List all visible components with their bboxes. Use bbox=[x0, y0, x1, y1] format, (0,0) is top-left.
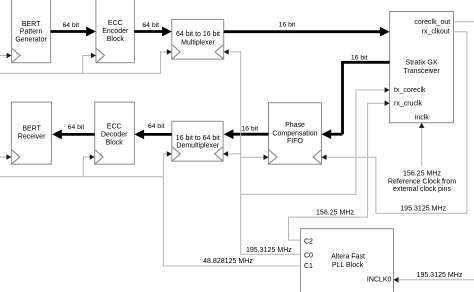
svg-text:195.3125 MHz: 195.3125 MHz bbox=[400, 205, 446, 212]
svg-text:195.3125 MHz: 195.3125 MHz bbox=[246, 247, 292, 254]
svg-text:BERT: BERT bbox=[22, 21, 41, 28]
block U6 ECC Decoder Block bbox=[95, 102, 135, 164]
wire net C0 195.3125 MHz: vertical from PLL C0 bbox=[229, 52, 301, 254]
svg-text:inclk: inclk bbox=[415, 115, 430, 122]
arrow into U8 right clock bbox=[322, 154, 327, 160]
arrow into tx_coreclk bbox=[385, 87, 390, 93]
svg-text:Block: Block bbox=[106, 140, 124, 147]
svg-text:external clock pins: external clock pins bbox=[393, 186, 451, 193]
svg-text:64 bit: 64 bit bbox=[68, 124, 85, 131]
clock chevron right on U3 bbox=[215, 45, 223, 59]
data arrow D: transceiver to FIFO, 16 bit elbow bbox=[322, 54, 390, 139]
arrow into U7 left clock bbox=[167, 151, 172, 157]
svg-text:Receiver: Receiver bbox=[18, 134, 46, 141]
wire stub to U1 clock bbox=[0, 55, 7, 57]
block U8 Phase Compensation FIFO bbox=[269, 103, 322, 165]
wire net C1: bottom rail bbox=[0, 176, 163, 178]
svg-text:156.25 MHz: 156.25 MHz bbox=[403, 171, 441, 178]
clock chevron left on U8 bbox=[269, 150, 277, 164]
svg-text:16 bit: 16 bit bbox=[279, 22, 296, 29]
svg-text:Altera Fast: Altera Fast bbox=[331, 254, 365, 261]
svg-text:Demultiplexer: Demultiplexer bbox=[176, 142, 219, 149]
wire net C2 156.25 MHz: from PLL C2 to rx_cruclk bbox=[289, 103, 386, 240]
svg-text:Stratix GX: Stratix GX bbox=[406, 60, 438, 67]
clock chevron left on U7 bbox=[172, 147, 180, 161]
wire coreclk_out to right edge bbox=[454, 21, 474, 23]
svg-text:Block: Block bbox=[107, 36, 125, 43]
block U9 Altera Fast PLL Block bbox=[301, 229, 394, 292]
clock chevron left on U3 bbox=[172, 45, 180, 59]
svg-text:rx_clkout: rx_clkout bbox=[422, 28, 450, 35]
svg-text:FIFO: FIFO bbox=[287, 138, 303, 145]
wire branch to tx_coreclk bbox=[241, 90, 386, 194]
block U2 ECC Encoder Block bbox=[96, 0, 134, 63]
svg-text:Compensation: Compensation bbox=[272, 131, 317, 138]
label inclk reference clock bbox=[388, 171, 456, 193]
svg-text:Generator: Generator bbox=[15, 36, 47, 43]
svg-text:64 bit: 64 bit bbox=[62, 22, 79, 29]
arrow into U5 clock bbox=[6, 154, 11, 160]
clock chevron right on U8 bbox=[313, 150, 321, 164]
clock chevron right on U7 bbox=[215, 147, 223, 161]
svg-text:64 bit to 16 bit: 64 bit to 16 bit bbox=[176, 31, 220, 38]
svg-text:16 bit: 16 bit bbox=[241, 125, 258, 132]
arrow into U3 right clock bbox=[224, 49, 229, 55]
arrow into U7 right clock bbox=[223, 151, 228, 157]
arrow into U1 clock bbox=[7, 53, 12, 59]
wire branch to U2 clock bbox=[83, 56, 92, 74]
arrow into INCLK0 bbox=[394, 277, 399, 283]
wire net rx_clkout to FIFO right clock bbox=[326, 32, 467, 214]
wire branch to U8 left clock bbox=[241, 156, 265, 158]
svg-text:rx_cruclk: rx_cruclk bbox=[394, 101, 423, 108]
clock chevron on U1 bbox=[12, 49, 20, 63]
svg-text:Transceiver: Transceiver bbox=[403, 68, 440, 75]
clock chevron on U2 bbox=[96, 49, 104, 63]
arrow into U2 clock bbox=[91, 53, 96, 59]
svg-text:195.3125 MHz: 195.3125 MHz bbox=[417, 272, 463, 279]
wire inclk reference bbox=[421, 127, 423, 166]
data arrow C: multiplexer to transceiver, 16 bit bbox=[224, 22, 390, 37]
wire net C1: main vertical from PLL C1 bbox=[163, 154, 300, 266]
svg-text:48.828125 MHz: 48.828125 MHz bbox=[203, 258, 253, 265]
svg-text:64 bit: 64 bit bbox=[148, 123, 165, 130]
svg-text:C1: C1 bbox=[304, 263, 313, 270]
wire INCLK0 input bbox=[398, 279, 474, 281]
clock chevron on U6 bbox=[95, 150, 103, 164]
svg-text:C0: C0 bbox=[304, 252, 313, 259]
svg-text:INCLK0: INCLK0 bbox=[367, 276, 392, 283]
block U1 BERT Pattern Generator bbox=[12, 0, 51, 63]
wire net C1 48.828125 MHz: top rail bbox=[0, 52, 168, 74]
svg-text:16 bit to 64 bit: 16 bit to 64 bit bbox=[176, 135, 220, 142]
svg-text:BERT: BERT bbox=[22, 126, 41, 133]
svg-text:Pattern: Pattern bbox=[20, 29, 43, 36]
block U3 64 bit to 16 bit Multiplexer bbox=[172, 19, 224, 59]
svg-text:coreclk_out: coreclk_out bbox=[414, 19, 450, 26]
svg-text:Decoder: Decoder bbox=[101, 132, 128, 139]
svg-text:ECC: ECC bbox=[108, 20, 123, 27]
svg-text:Reference Clock from: Reference Clock from bbox=[388, 178, 456, 185]
data arrow A: generator to encoder, 64 bit bbox=[51, 22, 96, 36]
wire branch to U7 right clock bbox=[228, 153, 240, 155]
data arrow G: decoder to receiver, 64 bit bbox=[52, 124, 95, 139]
wire stub to U5 clock bbox=[0, 156, 7, 158]
arrow into U3 left clock bbox=[167, 49, 172, 55]
wire branch to U6 clock bbox=[83, 157, 90, 177]
data arrow E: FIFO to demultiplexer, 16 bit bbox=[224, 125, 269, 139]
svg-text:16 bit: 16 bit bbox=[351, 54, 368, 61]
arrow into U8 left clock bbox=[264, 154, 269, 160]
arrow into U6 clock bbox=[90, 154, 95, 160]
data arrow F: demultiplexer to decoder, 64 bit bbox=[134, 123, 171, 139]
svg-text:Multiplexer: Multiplexer bbox=[181, 39, 216, 46]
data arrow B: encoder to multiplexer, 64 bit bbox=[134, 22, 172, 36]
arrow into rx_cruclk bbox=[385, 100, 390, 106]
svg-text:ECC: ECC bbox=[107, 123, 122, 130]
svg-text:Phase: Phase bbox=[285, 122, 305, 129]
block U7 16 bit to 64 bit Demultiplexer bbox=[172, 121, 223, 161]
svg-text:Encoder: Encoder bbox=[102, 28, 129, 35]
svg-text:C2: C2 bbox=[304, 238, 313, 245]
svg-text:64 bit: 64 bit bbox=[142, 22, 159, 29]
block U4 Stratix GX Transceiver bbox=[390, 12, 454, 123]
block U5 BERT Receiver bbox=[11, 102, 51, 164]
svg-text:tx_coreclk: tx_coreclk bbox=[394, 87, 426, 94]
arrow into inclk (up) bbox=[419, 123, 425, 128]
clock chevron on U5 bbox=[12, 150, 20, 164]
svg-text:PLL Block: PLL Block bbox=[332, 262, 364, 269]
svg-text:156.25 MHz: 156.25 MHz bbox=[316, 210, 354, 217]
